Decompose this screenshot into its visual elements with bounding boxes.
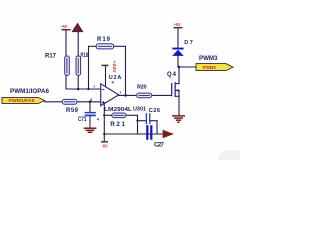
svg-text:PWM3: PWM3 [203, 65, 216, 71]
svg-text:-5V: -5V [102, 144, 108, 149]
svg-text:C27: C27 [154, 141, 165, 148]
svg-text:PWM1/IOPA6: PWM1/IOPA6 [10, 88, 49, 95]
svg-text:1: 1 [120, 91, 122, 95]
svg-text:+5V: +5V [61, 24, 68, 29]
svg-text:+24V: +24V [112, 61, 117, 73]
svg-text:R18: R18 [81, 53, 89, 59]
svg-text:U301: U301 [133, 107, 147, 113]
svg-text:R21: R21 [110, 121, 125, 128]
svg-text:PWM1/PA6: PWM1/PA6 [9, 98, 35, 103]
svg-text:R17: R17 [45, 53, 57, 59]
svg-text:R19: R19 [97, 37, 111, 43]
svg-text:LM2904L: LM2904L [104, 107, 133, 113]
svg-text:Q4: Q4 [167, 72, 177, 78]
svg-text:PWM3: PWM3 [199, 55, 218, 62]
svg-text:+5V: +5V [174, 22, 181, 27]
svg-text:R59: R59 [66, 108, 79, 114]
svg-text:2: 2 [93, 85, 95, 89]
svg-text:R20: R20 [137, 84, 147, 90]
svg-text:C26: C26 [149, 108, 161, 114]
svg-text:C71: C71 [78, 117, 87, 123]
